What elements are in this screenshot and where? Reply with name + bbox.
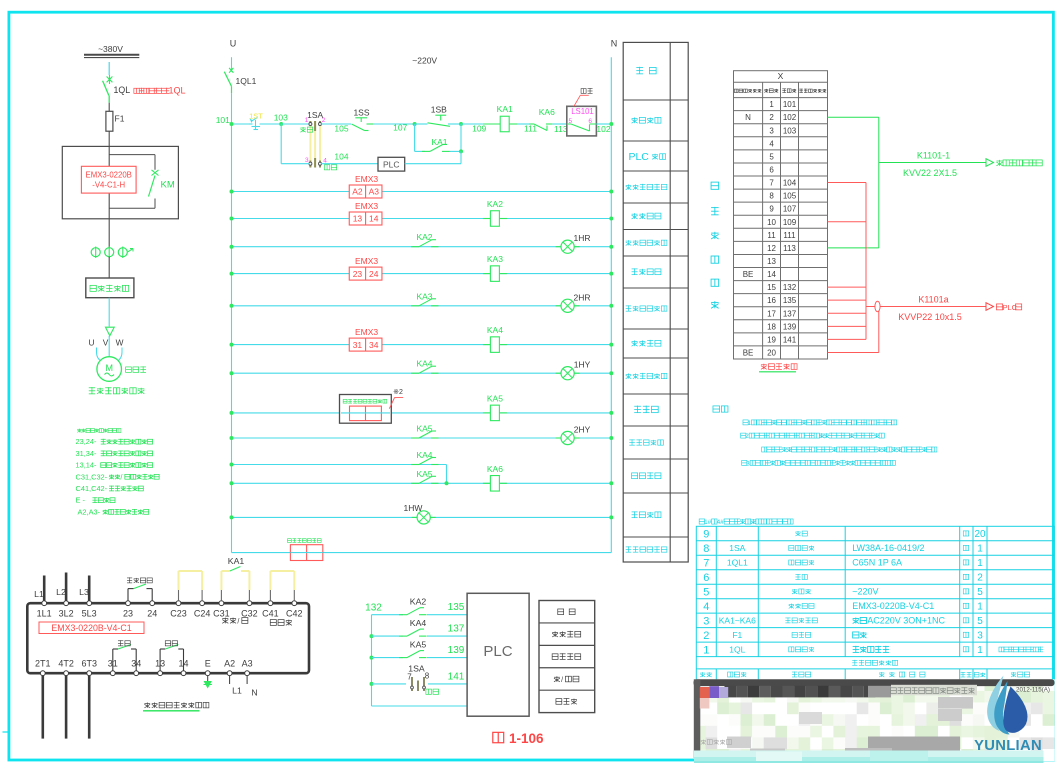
svg-text:13: 13 xyxy=(767,257,776,266)
cable K1101a wiring xyxy=(828,182,867,184)
wire F1 down xyxy=(108,131,110,146)
run bridge 13-14 xyxy=(159,649,161,671)
pump protector fault output box xyxy=(340,395,392,424)
svg-text:3: 3 xyxy=(769,126,774,135)
svg-text:KA4: KA4 xyxy=(487,325,503,335)
svg-text:~380V: ~380V xyxy=(98,44,123,54)
svg-text:18: 18 xyxy=(767,322,776,331)
rung EMX3 31-34 wire xyxy=(232,344,612,346)
svg-text:109: 109 xyxy=(783,218,797,227)
svg-text:AC220V 3ON+1NC: AC220V 3ON+1NC xyxy=(867,616,945,626)
svg-text:L1: L1 xyxy=(232,686,242,696)
svg-text:1SA: 1SA xyxy=(729,543,745,553)
title block blurred project text xyxy=(890,688,896,694)
svg-text:3: 3 xyxy=(703,615,709,627)
svg-text:111: 111 xyxy=(783,231,796,240)
svg-text:1HY: 1HY xyxy=(574,360,591,370)
svg-text:/: / xyxy=(237,617,239,626)
svg-text:102: 102 xyxy=(783,113,797,122)
svg-text:A3: A3 xyxy=(369,187,380,197)
title block gray blocks xyxy=(868,686,891,698)
start-stop bridge C31-C32 with KA1 xyxy=(220,590,222,601)
svg-text:C32: C32 xyxy=(241,609,258,619)
breaker 1QL xyxy=(107,77,113,83)
svg-text:4#: 4# xyxy=(717,519,725,526)
svg-text:U: U xyxy=(89,338,95,348)
svg-text:7: 7 xyxy=(703,558,709,570)
title block left bar xyxy=(694,679,701,758)
svg-text:1SS: 1SS xyxy=(353,108,369,118)
svg-text:KA6: KA6 xyxy=(539,107,555,117)
svg-text:~220V: ~220V xyxy=(852,587,878,597)
svg-text:5: 5 xyxy=(769,152,774,161)
svg-text:132: 132 xyxy=(783,283,797,292)
svg-text:V: V xyxy=(103,338,109,348)
svg-text:132: 132 xyxy=(365,603,382,614)
label soft start stop xyxy=(222,618,228,620)
svg-text:U: U xyxy=(230,39,237,49)
title block red square xyxy=(700,687,710,698)
svg-text:101: 101 xyxy=(216,115,230,125)
svg-text:EMX3-0220B-V4-C1: EMX3-0220B-V4-C1 xyxy=(852,601,934,611)
svg-text:16: 16 xyxy=(767,296,776,305)
junction 107 xyxy=(413,122,417,126)
svg-text:6: 6 xyxy=(769,165,774,174)
svg-text:2HR: 2HR xyxy=(573,292,590,302)
svg-text:/: / xyxy=(561,677,563,684)
svg-text:LW38A-16-0419/2: LW38A-16-0419/2 xyxy=(852,543,924,553)
svg-text:BE: BE xyxy=(743,348,754,357)
wire net 102 xyxy=(596,123,611,125)
svg-text:13,14-: 13,14- xyxy=(76,461,97,470)
rung EMX3 23-24 wire xyxy=(232,273,612,275)
svg-text:1SA: 1SA xyxy=(408,664,425,674)
pixelated title block background xyxy=(694,679,706,691)
svg-text:N: N xyxy=(611,39,618,49)
svg-text:2: 2 xyxy=(745,433,749,440)
svg-text:X: X xyxy=(778,71,784,81)
title block top bar xyxy=(694,679,1055,686)
svg-text:9: 9 xyxy=(769,205,774,214)
motor M submersible pump xyxy=(97,357,122,382)
svg-text:7: 7 xyxy=(407,673,412,682)
svg-text:2HY: 2HY xyxy=(574,425,591,435)
svg-text:PLC: PLC xyxy=(483,643,512,660)
svg-text:4T2: 4T2 xyxy=(58,659,74,669)
svg-text:2012-115(A): 2012-115(A) xyxy=(1016,687,1050,694)
selector 1SA pins 7-8 to PLC input 141 xyxy=(372,683,407,685)
svg-text:KA1: KA1 xyxy=(228,556,245,566)
breaker 1QL1 xyxy=(229,68,233,73)
svg-text:14: 14 xyxy=(369,214,379,224)
lamp 2HR xyxy=(556,305,561,307)
svg-text:5: 5 xyxy=(977,587,983,598)
logo YUNLIAN water drop xyxy=(987,676,1003,732)
svg-text:KA1~KA6: KA1~KA6 xyxy=(719,615,756,625)
svg-text:12: 12 xyxy=(767,244,776,253)
svg-text:3: 3 xyxy=(305,157,309,164)
svg-text:23,24-: 23,24- xyxy=(76,437,97,446)
lamp 2HY xyxy=(556,437,561,439)
title block lilac square xyxy=(719,687,728,698)
svg-text:1SB: 1SB xyxy=(431,105,447,115)
title block bottom cyan strip xyxy=(694,751,1044,764)
fault bridge 31-34 xyxy=(112,649,114,671)
svg-text:5: 5 xyxy=(977,616,983,627)
svg-text:N: N xyxy=(745,113,751,122)
svg-text:105: 105 xyxy=(334,123,348,133)
svg-text:13: 13 xyxy=(353,214,363,224)
note 2 line 2 xyxy=(762,447,767,452)
motor lines T1 T2 T3 xyxy=(41,676,44,739)
svg-text:K1101-1: K1101-1 xyxy=(917,151,950,161)
svg-text:20: 20 xyxy=(974,529,986,540)
svg-text:5L3: 5L3 xyxy=(82,609,97,619)
svg-text:1: 1 xyxy=(305,117,309,124)
svg-text:11: 11 xyxy=(767,231,776,240)
svg-text:KA1: KA1 xyxy=(497,104,513,114)
BOM install row xyxy=(852,659,857,661)
svg-text:BE: BE xyxy=(743,270,754,279)
svg-text:C31,C32-: C31,C32- xyxy=(76,472,108,481)
caption terminal wiring diagram xyxy=(761,364,767,366)
wire net 111 xyxy=(517,123,529,125)
svg-text:※2: ※2 xyxy=(393,389,403,396)
svg-text:-V4-C1-H: -V4-C1-H xyxy=(92,181,125,190)
svg-text:3: 3 xyxy=(746,461,750,468)
rung 2HR wire xyxy=(232,305,612,307)
svg-text:1QL1: 1QL1 xyxy=(727,558,748,568)
soft starter terminal notes xyxy=(77,428,81,430)
note 3 xyxy=(742,460,747,465)
svg-text:C41,C42-: C41,C42- xyxy=(76,484,108,493)
svg-text:102: 102 xyxy=(596,124,610,134)
svg-text:KA2: KA2 xyxy=(487,199,503,209)
contact KA5 to PLC input 139 xyxy=(372,657,404,659)
svg-text:EMX3: EMX3 xyxy=(355,201,378,211)
svg-text:34: 34 xyxy=(369,340,379,350)
wire inside box xyxy=(108,146,110,166)
svg-text:107: 107 xyxy=(393,122,407,132)
svg-text:101: 101 xyxy=(783,100,797,109)
svg-text:103: 103 xyxy=(783,126,797,135)
bottom rung wire xyxy=(232,552,291,554)
bypass run bridge 23-24 xyxy=(127,589,129,601)
svg-text:PLC: PLC xyxy=(383,159,400,169)
svg-text:~220V: ~220V xyxy=(412,56,437,66)
svg-text:1: 1 xyxy=(748,420,752,427)
svg-text:17: 17 xyxy=(767,309,776,318)
title block purple square xyxy=(709,686,719,698)
note 1 xyxy=(743,420,748,425)
A2 to L1 xyxy=(229,676,231,684)
svg-text:104: 104 xyxy=(783,179,797,188)
N rail wire xyxy=(610,57,612,552)
wire PLC to junction xyxy=(405,163,461,165)
title block signer text xyxy=(701,739,706,741)
svg-text:2: 2 xyxy=(703,630,709,642)
svg-text:14: 14 xyxy=(767,270,776,279)
svg-text:4: 4 xyxy=(769,139,774,148)
soft starter body box xyxy=(27,603,309,673)
wire 1QL to F1 xyxy=(108,103,110,112)
svg-text:1#: 1# xyxy=(704,519,712,526)
svg-text:E -: E - xyxy=(76,496,86,505)
junction right of 1SB xyxy=(459,122,463,126)
svg-text:C42: C42 xyxy=(286,609,303,619)
svg-text:137: 137 xyxy=(783,309,797,318)
wire net 105 xyxy=(321,123,351,125)
svg-text:24: 24 xyxy=(369,269,379,279)
rung 1HY wire xyxy=(232,372,612,374)
svg-text:KM: KM xyxy=(161,180,175,191)
junction 103 xyxy=(279,122,283,126)
svg-text:1HR: 1HR xyxy=(573,233,590,243)
svg-text:A2: A2 xyxy=(224,659,235,669)
arrow to level transmitter xyxy=(986,159,994,167)
arrow to PLC cabinet xyxy=(986,303,994,311)
bypass contactor KM xyxy=(109,154,155,156)
svg-text:F1: F1 xyxy=(115,114,125,124)
cable K1101-1 wiring xyxy=(828,116,879,118)
svg-text:L3: L3 xyxy=(79,587,89,597)
wire box to CTs xyxy=(108,219,110,248)
svg-text:F1: F1 xyxy=(732,630,742,640)
current transformers xyxy=(91,248,100,257)
svg-text:1L1: 1L1 xyxy=(37,609,52,619)
svg-text:E: E xyxy=(205,659,211,669)
svg-text:K1101a: K1101a xyxy=(918,295,948,305)
svg-text:139: 139 xyxy=(448,645,465,656)
svg-text:1QL1: 1QL1 xyxy=(236,76,257,86)
vertical title pump control circuit xyxy=(711,182,719,189)
A3 to N xyxy=(246,676,248,684)
svg-text:1: 1 xyxy=(977,602,983,613)
svg-text:1: 1 xyxy=(977,558,983,569)
PLC signal table xyxy=(539,601,595,713)
svg-text:7: 7 xyxy=(769,179,774,188)
contact KA2 to PLC input 135 xyxy=(372,614,404,616)
U rail wire xyxy=(231,57,233,71)
wire net 113 xyxy=(552,123,566,125)
svg-text:1QL: 1QL xyxy=(169,86,186,96)
rung pump protector fault wire xyxy=(232,412,612,414)
lamp 1HW xyxy=(412,516,417,518)
svg-text:24: 24 xyxy=(147,609,157,619)
parallel contact KA1 branch xyxy=(414,124,416,151)
svg-text:23: 23 xyxy=(353,269,363,279)
level switch LS101 xyxy=(567,106,597,136)
svg-text:15: 15 xyxy=(767,283,776,292)
svg-text:141: 141 xyxy=(783,335,797,344)
wire 1SA to PLC xyxy=(321,163,378,165)
svg-text:KA4: KA4 xyxy=(410,618,427,628)
soft starter model box xyxy=(39,622,144,634)
svg-text:5: 5 xyxy=(703,586,709,598)
svg-text:KVV22 2X1.5: KVV22 2X1.5 xyxy=(903,168,957,178)
motor leads xyxy=(97,348,103,362)
rung EMX3 A2-A3 wire xyxy=(232,191,612,193)
svg-text:EMX3-0220B: EMX3-0220B xyxy=(86,171,132,180)
svg-text:137: 137 xyxy=(448,624,465,635)
terminal table X frame xyxy=(734,71,828,359)
svg-text:1: 1 xyxy=(977,544,983,555)
svg-text:31: 31 xyxy=(353,340,363,350)
svg-text:EMX3: EMX3 xyxy=(355,327,378,337)
svg-text:23: 23 xyxy=(123,609,133,619)
soft starter enclosure box xyxy=(62,146,178,218)
svg-text:109: 109 xyxy=(472,123,486,133)
svg-text:141: 141 xyxy=(448,671,465,682)
svg-text:W: W xyxy=(116,338,124,348)
svg-text:3: 3 xyxy=(977,631,983,642)
rung EMX3 13-14 wire xyxy=(232,218,612,220)
caption soft starter wiring diagram xyxy=(144,702,150,704)
rung 1HR wire xyxy=(232,246,612,248)
function strip table frame xyxy=(623,42,688,562)
svg-text:L2: L2 xyxy=(56,587,66,597)
svg-text:113: 113 xyxy=(554,124,568,134)
svg-text:C23: C23 xyxy=(170,609,187,619)
PLC left bus wire xyxy=(371,615,373,706)
junction 101 xyxy=(230,122,234,126)
svg-text:135: 135 xyxy=(448,602,465,613)
svg-text:KA6: KA6 xyxy=(487,464,503,474)
svg-text:104: 104 xyxy=(334,152,348,162)
svg-text:1: 1 xyxy=(769,100,774,109)
label three-in-three-out main circuit xyxy=(89,387,95,389)
svg-text:EMX3: EMX3 xyxy=(355,174,378,184)
wire bus to 1QL xyxy=(108,62,110,75)
fuse F1 xyxy=(106,111,113,131)
reset bridge C23-C24 xyxy=(178,590,180,601)
svg-text:YUNLIAN: YUNLIAN xyxy=(974,738,1042,754)
svg-text:C24: C24 xyxy=(194,609,211,619)
svg-text:6: 6 xyxy=(703,572,709,584)
svg-text:EMX3: EMX3 xyxy=(355,256,378,266)
rung KA6 wire xyxy=(232,482,612,484)
cable junction box to motor xyxy=(108,298,110,327)
svg-text:EMX3-0220B-V4-C1: EMX3-0220B-V4-C1 xyxy=(51,623,131,633)
svg-text:113: 113 xyxy=(783,244,796,253)
wire net 109 xyxy=(461,123,483,125)
svg-text:KA5: KA5 xyxy=(410,640,427,650)
BOM table frame xyxy=(696,526,1054,681)
svg-text:N: N xyxy=(251,688,257,698)
svg-text:C65N 1P 6A: C65N 1P 6A xyxy=(852,558,902,568)
svg-text:A2: A2 xyxy=(352,187,363,197)
svg-text:M: M xyxy=(105,363,113,373)
svg-text:KA5: KA5 xyxy=(487,393,503,403)
power junction box xyxy=(86,278,134,298)
svg-text:L1: L1 xyxy=(34,589,44,599)
rung 2HY wire xyxy=(232,437,612,439)
pump protector power box xyxy=(287,539,291,543)
bottom terminals with labels xyxy=(40,671,45,676)
svg-text:1HW: 1HW xyxy=(404,503,423,513)
PLC box xyxy=(467,593,529,716)
svg-text:8: 8 xyxy=(425,672,430,681)
ground symbol at E xyxy=(207,676,209,681)
rung KA4 parallel wire xyxy=(232,464,447,466)
svg-text:2: 2 xyxy=(977,573,983,584)
wire net 101 xyxy=(232,123,250,125)
svg-text:KA2: KA2 xyxy=(410,597,427,607)
label common terminal xyxy=(270,620,276,626)
lamp 1HR xyxy=(556,246,561,248)
svg-text:10: 10 xyxy=(767,218,776,227)
svg-text:A3: A3 xyxy=(242,659,253,669)
svg-text:2T1: 2T1 xyxy=(35,659,51,669)
note 2 xyxy=(741,433,746,438)
notes title xyxy=(713,406,720,412)
svg-text:1ST: 1ST xyxy=(249,112,263,121)
svg-text:2: 2 xyxy=(769,113,774,122)
svg-text:C31: C31 xyxy=(213,609,230,619)
svg-text:8: 8 xyxy=(703,543,709,555)
figure caption 1-106 xyxy=(493,732,504,742)
svg-text:2: 2 xyxy=(322,117,326,124)
note text for 1QL xyxy=(134,88,139,93)
wire 103 to 1SA xyxy=(281,123,309,125)
svg-text:C41: C41 xyxy=(262,609,279,619)
svg-text:31,34-: 31,34- xyxy=(76,449,97,458)
svg-text:135: 135 xyxy=(783,296,797,305)
svg-text:1QL: 1QL xyxy=(729,644,745,654)
svg-text:PLC: PLC xyxy=(628,151,649,163)
BOM header row xyxy=(700,672,705,674)
svg-text:4: 4 xyxy=(703,601,709,613)
svg-text:1: 1 xyxy=(703,644,709,656)
PLC common wire xyxy=(372,705,468,707)
top terminals with labels xyxy=(42,601,47,606)
lamp 1HY xyxy=(556,372,561,374)
svg-text:KVVP22 10x1.5: KVVP22 10x1.5 xyxy=(898,312,962,322)
BOM note above xyxy=(699,519,704,524)
svg-text:107: 107 xyxy=(783,205,797,214)
svg-text:19: 19 xyxy=(767,335,776,344)
title block dark mosaic row xyxy=(725,686,737,698)
svg-text:20: 20 xyxy=(767,348,776,357)
svg-text:3L2: 3L2 xyxy=(59,609,74,619)
function strip labels xyxy=(636,66,643,68)
svg-text:KA3: KA3 xyxy=(487,254,503,264)
svg-text:1-106: 1-106 xyxy=(509,731,544,746)
svg-text:A2,A3-: A2,A3- xyxy=(78,507,101,516)
rung 1HW wire xyxy=(232,516,612,518)
incoming lines L1 L2 L3 xyxy=(43,576,46,601)
svg-text:1: 1 xyxy=(977,645,983,656)
svg-text:LS101: LS101 xyxy=(571,107,594,116)
svg-text:139: 139 xyxy=(783,322,797,331)
svg-text:9: 9 xyxy=(703,529,709,541)
thermostat contact 1ST xyxy=(249,123,253,125)
label 1ST wire 103 xyxy=(260,123,282,125)
terminal table X column headers xyxy=(734,89,738,92)
common bridge C41-C42 xyxy=(269,590,271,601)
wire CTs to junction box xyxy=(108,257,110,278)
wire net 107 xyxy=(373,123,415,125)
svg-text:6T3: 6T3 xyxy=(81,659,97,669)
svg-text:1QL: 1QL xyxy=(114,85,131,95)
PLC interlock box xyxy=(378,157,405,171)
svg-text:103: 103 xyxy=(274,113,288,123)
contact KA4 to PLC input 137 xyxy=(372,635,404,637)
svg-text:KA1: KA1 xyxy=(431,137,447,147)
svg-text:8: 8 xyxy=(769,192,774,201)
svg-text:105: 105 xyxy=(783,192,797,201)
wire net 104 branch xyxy=(280,124,282,164)
